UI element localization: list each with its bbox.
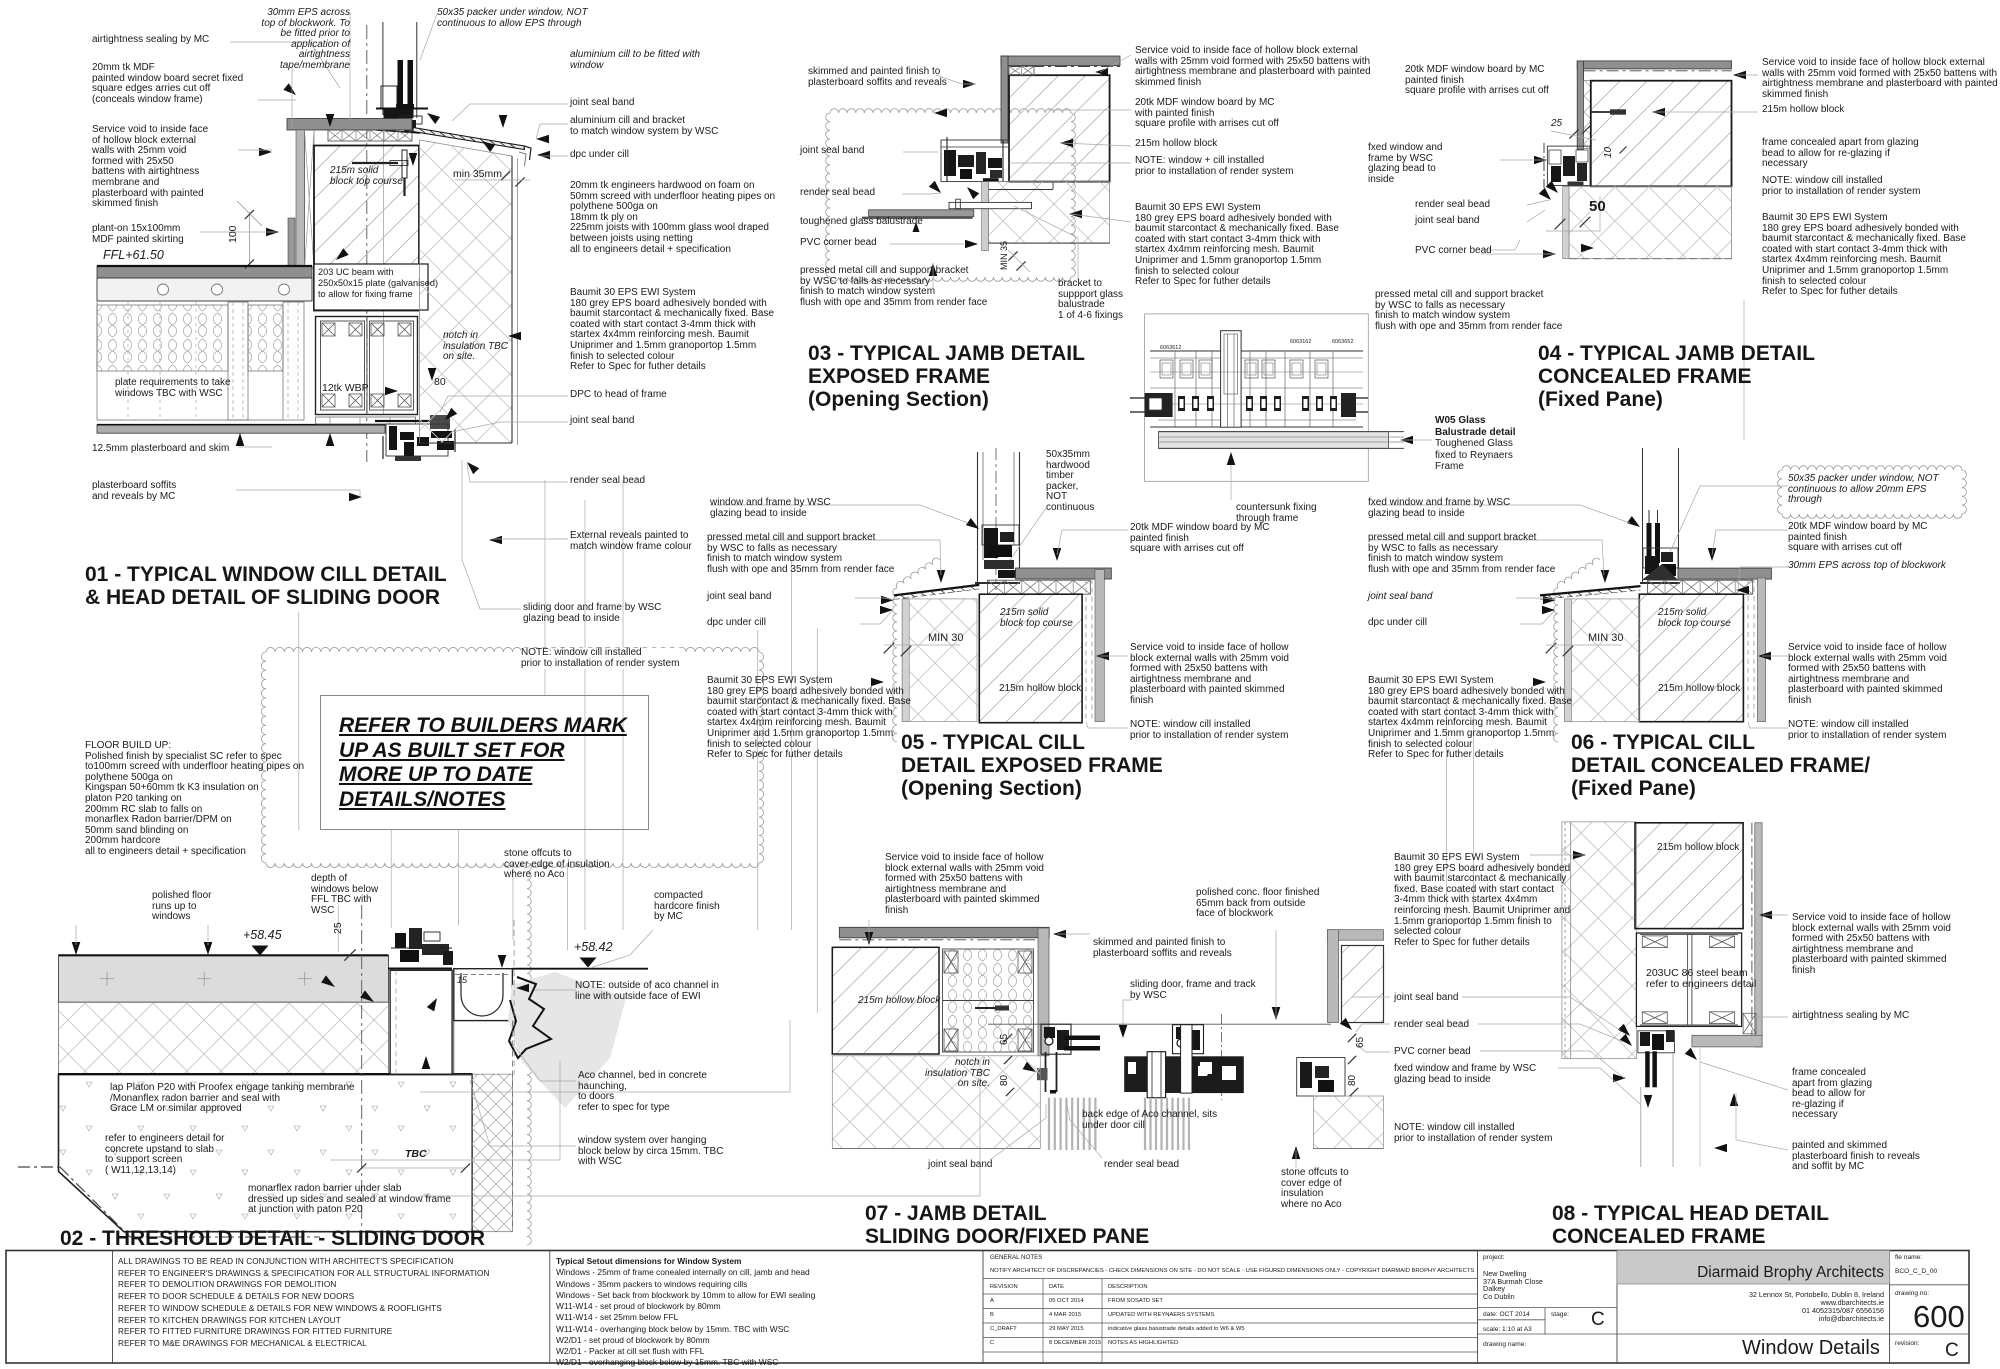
D01 label airtightness sealing: [92, 35, 209, 46]
D02 label +58.42: [574, 941, 613, 954]
W05 part labels: [1160, 346, 1181, 352]
D01 label NOTE window cill: [521, 648, 679, 669]
revision table rows: [990, 1284, 1018, 1290]
D03 leader lines: [936, 75, 976, 84]
D08 EWI crosshatch column: [1562, 822, 1637, 1059]
D01 label plate requirements: [115, 378, 231, 399]
title detail 02: [60, 1227, 485, 1250]
D01 label min 35mm: [453, 169, 502, 180]
D05 label pressed metal cill: [707, 533, 894, 575]
W05 central mullion tower: [1221, 331, 1242, 428]
D03 corner packer strip: [1009, 66, 1034, 75]
D04 label joint seal band: [1415, 216, 1480, 227]
D01 min35 dim leader: [455, 179, 530, 181]
W05 profile boxes row: [1160, 360, 1173, 378]
revision cell: [1895, 1340, 1920, 1347]
D03 label skimmed painted: [808, 67, 947, 88]
typical setout dimensions: [556, 1256, 815, 1369]
D08 hollow block box: [1635, 823, 1743, 929]
D07 FFL track line: [988, 1023, 1331, 1025]
D02 stone offcuts jagged outline: [509, 977, 551, 1058]
D07 label stone offcuts: [1281, 1168, 1349, 1210]
title detail 08: [1552, 1202, 1829, 1248]
D03 label bracket to support: [1058, 279, 1123, 321]
D01 window plane line through block: [383, 130, 385, 414]
D01 joist insulation batts zone: [97, 305, 228, 371]
D05 label MIN 30: [928, 633, 963, 645]
D07 aco grille 1: [1048, 1098, 1050, 1150]
D07 left EWI region: [832, 1056, 1040, 1149]
D02 label polished floor: [152, 891, 211, 923]
D06 plasterboard strip right: [1757, 578, 1765, 722]
W05 gasket blobs row: [1163, 396, 1170, 411]
D03 hollow block box: [1009, 75, 1110, 181]
D07 label notch in insulation: [925, 1058, 990, 1090]
D05 cill slope: [894, 585, 979, 596]
D04 render strip left: [1563, 186, 1569, 258]
D08 EWI left dashed edge: [1564, 822, 1566, 1059]
D01 packer xbox row under board: [328, 130, 412, 141]
D04 label 20tk MDF: [1405, 65, 1549, 97]
D02 label stone offcuts: [504, 849, 610, 881]
D04 leader lines: [1737, 74, 1758, 76]
D02 aco outside face dashline: [513, 920, 515, 1075]
D08 label service void: [1792, 913, 1951, 977]
D01 fixing bolt glyphs in block: [402, 150, 407, 178]
D01 batts zone right: [248, 305, 283, 371]
D01 head packer strip: [316, 417, 416, 424]
D01 label FFL+61.50: [103, 249, 164, 262]
D03 min35 dim: [1008, 251, 1017, 260]
D02 excavation dashdot lines: [18, 1166, 60, 1168]
W05 outer border box: [1145, 314, 1369, 481]
D08 plasterboard bottom horizontal: [1692, 1035, 1762, 1047]
D03 pressed metal bracket arm: [949, 202, 1032, 208]
D07 door frame cluster 1: [1041, 1024, 1071, 1054]
D06 MIN30 dim: [1546, 643, 1557, 654]
D08 label fixed window: [1394, 1064, 1536, 1085]
D02 upstand block: [390, 970, 452, 1074]
D02 aco haunch outline: [454, 1021, 472, 1075]
D06 label dpc under cill: [1368, 618, 1427, 629]
D01 floor screed band: [97, 266, 312, 278]
drawing name big: [1742, 1338, 1880, 1359]
D02 label lap platon: [110, 1083, 355, 1115]
D03 label PVC corner bead: [800, 238, 877, 249]
D06 label service void: [1788, 643, 1947, 707]
D05 leader arrows: [937, 570, 946, 583]
D04 EWI crosshatch below: [1569, 186, 1731, 258]
D01 label 30mm EPS across top: [261, 8, 350, 72]
D03 revision cloud: [826, 109, 1076, 282]
D08 leader lines: [1530, 854, 1584, 856]
D06 service void dashed strip: [1747, 578, 1749, 722]
D06 frame cluster: [1643, 548, 1678, 568]
D07 label skimmed painted: [1093, 938, 1232, 959]
title detail 06: [1571, 731, 1870, 800]
D08 label joint seal band: [1394, 993, 1459, 1004]
D07 label back edge aco: [1082, 1110, 1217, 1131]
D06 label pressed metal cill: [1368, 533, 1555, 575]
W05 label countersunk fixing: [1236, 503, 1317, 524]
D01 window board grey: [287, 119, 412, 131]
D03 leader arrows: [963, 80, 976, 89]
general notes table lines: [983, 1278, 1478, 1280]
D04 packer strip left of block: [1584, 81, 1591, 149]
D05 window frame verticals: [977, 452, 979, 582]
D01 label render seal bead: [570, 476, 645, 487]
W05 end blocks: [1145, 393, 1173, 417]
D08 label painted skimmed: [1792, 1141, 1920, 1173]
D07 label joint seal band: [928, 1160, 993, 1171]
D01 label Baumit EWI: [570, 288, 774, 373]
D01 sliding door head frame cluster: [375, 420, 433, 422]
D01 EWI crosshatch zone: [419, 140, 512, 443]
D08 label NOTE: [1394, 1123, 1552, 1144]
D08 reveal verticals: [1640, 1087, 1642, 1167]
D01 203 UC beam note box: [314, 264, 428, 310]
D04 label PVC corner bead: [1415, 246, 1492, 257]
D06 label Baumit: [1368, 676, 1572, 761]
D04 label frame concealed: [1762, 138, 1919, 170]
D05 MIN30 dim: [884, 643, 895, 654]
D05 leader lines: [710, 505, 968, 523]
D01 label 20mm tk MDF: [92, 63, 243, 105]
D08 label PVC corner bead: [1394, 1047, 1471, 1058]
D02 label TBC: [405, 1149, 427, 1160]
leader columns mid sheet: [757, 630, 759, 930]
D01 label 215m solid block: [330, 166, 403, 187]
D05 render strip left: [902, 599, 909, 722]
D02 label refer engineers upstand: [105, 1134, 225, 1176]
D01 label DPC to head: [570, 390, 667, 401]
D05 label joint seal band: [707, 592, 772, 603]
D02 dim 25 rotated: [333, 922, 344, 934]
D06 MDF window board: [1678, 568, 1772, 579]
D05 label 215m solid block: [1000, 608, 1073, 629]
D02 revision cloud vertical tail: [527, 863, 531, 1245]
D07 label 215m hollow block: [858, 996, 940, 1007]
D01 leader arrows: [283, 83, 296, 95]
D03 EWI crosshatch below block: [989, 182, 1110, 244]
D04 dim 25 slashes: [1569, 129, 1578, 138]
D04 label NOTE window cill: [1762, 176, 1920, 197]
D02 screed band: [59, 955, 389, 1002]
D02 stone offcuts shadow blob: [508, 972, 626, 1108]
D01 label plasterboard soffits: [92, 481, 176, 502]
D01 label joint seal band 2: [570, 416, 635, 427]
D07 leader lines: [1057, 933, 1090, 935]
D05 label window and frame: [710, 498, 831, 519]
D08 steel beam box: [1636, 933, 1741, 1026]
D07 aco grille 2: [1144, 1098, 1146, 1150]
D06 label NOTE: [1788, 720, 1946, 741]
W05 frame band horizontals: [1150, 350, 1363, 352]
refer notes list: [118, 1256, 489, 1350]
D01 label 203 UC beam: [318, 267, 438, 300]
D01 label aluminium cill bracket: [570, 116, 718, 137]
D02 label NOTE aco channel: [575, 981, 719, 1002]
architects address: [1749, 1291, 1884, 1323]
D01 top window frame black bars: [398, 60, 404, 108]
D02 centerline vertical: [361, 905, 363, 1245]
D02 aco channel box: [454, 969, 513, 1021]
D04 dim 10 rotated: [1604, 147, 1615, 158]
D08 label airtightness sealing: [1792, 1011, 1909, 1022]
D03 render strip below: [982, 182, 989, 251]
D02 dim 15: [457, 976, 467, 986]
D03 label NOTE window cill: [1135, 156, 1293, 177]
D01 label service void: [92, 125, 208, 210]
D07 fixing bolt glyph: [975, 1007, 1005, 1009]
D01 plasterboard strip vertical: [296, 130, 305, 268]
D03 dim MIN 35 rotated: [999, 241, 1010, 270]
D03 seal black rect: [983, 178, 999, 182]
D06 leader lines: [1370, 505, 1630, 523]
title block vertical dividers: [112, 1251, 114, 1364]
D06 label 50x35 packer: [1788, 474, 1939, 506]
D05 label 50x35mm hardwood: [1046, 450, 1094, 514]
D01 label notch in insulation: [443, 331, 508, 363]
D02 TBC dim: [362, 1167, 466, 1169]
D03 glass balustrade bars: [869, 210, 974, 217]
D04 dim 10 slash: [1620, 147, 1627, 154]
D04 dim 25: [1551, 119, 1562, 130]
D03 label 20tk MDF: [1135, 98, 1279, 130]
architects cell divider: [1617, 1333, 1890, 1335]
D04 label Baumit: [1762, 213, 1966, 298]
D04 seal dark rect: [1568, 182, 1584, 187]
D07 soffit band top: [839, 927, 1049, 938]
D07 insulation batts box: [943, 949, 1034, 1052]
D03 label render seal bead: [800, 188, 875, 199]
D02 EWI band below aco: [472, 1074, 512, 1232]
D04 dashdot under soffit: [1584, 70, 1732, 72]
D06 small cloud around 50x35 label: [1778, 466, 1967, 519]
D06 label 30mm EPS: [1788, 561, 1946, 572]
D02 dim 25: [337, 905, 339, 952]
D06 render strip left: [1565, 599, 1572, 722]
D07 right hatched block: [1342, 946, 1384, 1023]
W05 label glass balustrade: [1435, 415, 1516, 473]
D03 cill bracket step: [989, 189, 1054, 191]
D06 packer xbox row: [1648, 580, 1753, 594]
D07 right wall L: [1328, 930, 1384, 941]
W05 countersunk arrow: [1227, 452, 1236, 465]
D01 solid block top course box: [314, 146, 419, 311]
D05 service void dashed strip: [1085, 570, 1087, 722]
D03 window frame cluster: [941, 140, 1009, 182]
D01 centerline dash-dot: [366, 25, 368, 462]
D06 label 215m hollow block: [1658, 684, 1740, 695]
D05 plasterboard strip right: [1095, 570, 1104, 722]
D04 label render seal bead: [1415, 200, 1490, 211]
D08 airtightness seal: [1743, 1013, 1756, 1034]
D02 ground line right: [512, 968, 648, 970]
title detail 05: [901, 731, 1163, 800]
D04 label fixed window: [1368, 143, 1443, 185]
project cell: [1483, 1254, 1505, 1261]
D03 label 215m hollow block: [1135, 139, 1217, 150]
D02 leader arrows: [72, 942, 81, 955]
D02 insulation crosshatch band: [59, 1002, 389, 1074]
D06 label fixed window: [1368, 498, 1510, 519]
D06 label 215m solid block: [1658, 608, 1731, 629]
D01 floor deck band with holes: [97, 278, 312, 301]
D03 label joint seal band: [800, 146, 865, 157]
D01 WBP plywood box: [316, 317, 418, 415]
D02 label depth of windows: [311, 874, 378, 916]
D01 label aluminium cill fitted: [570, 50, 700, 71]
D05 label NOTE: [1130, 720, 1288, 741]
D02 label +58.45: [243, 929, 282, 942]
D01 top window frame section verticals: [382, 22, 384, 115]
D01 revision cloud around notes area: [261, 647, 763, 867]
D08 service void dashdot: [1751, 823, 1753, 1047]
D06 blockwork box: [1639, 594, 1743, 722]
D05 MDF window board: [1016, 568, 1112, 579]
D07 bottom boundary: [832, 1148, 1040, 1150]
D06 label joint seal band: [1368, 592, 1433, 603]
D05 revision cloud left edge: [893, 588, 897, 742]
D03 label service void: [1135, 46, 1371, 88]
D01 stud strip: [228, 302, 248, 420]
D07 door frame cluster 3: [1297, 1058, 1345, 1097]
D05 label Baumit: [707, 676, 911, 761]
D01 dim 100 line: [248, 212, 250, 267]
D08 leader arrows: [1573, 851, 1586, 860]
D03 dashdot under soffit: [1009, 66, 1121, 68]
D01 second stud strip: [283, 302, 304, 420]
D07 label service void: [885, 853, 1044, 917]
title detail 07: [865, 1202, 1149, 1248]
D04 leader arrows: [1733, 71, 1746, 80]
D05 label 215m hollow block: [999, 684, 1081, 695]
D03 label toughened glass: [800, 217, 923, 228]
D06 window frame mullion bars: [1647, 523, 1652, 563]
D01 min35 dim slashes: [501, 171, 510, 180]
D07 dims left: [1004, 1034, 1012, 1042]
W05 glass band: [1159, 432, 1389, 449]
D07 right EWI below: [1314, 1096, 1384, 1149]
title detail 01: [85, 563, 447, 609]
D03 soffit L grey: [1001, 56, 1120, 66]
D01 cill end drip and dpc: [524, 146, 531, 160]
D02 label compacted hardcore: [654, 891, 720, 923]
D02 level marker right: [580, 958, 597, 968]
D01 batten strip vertical: [305, 130, 315, 268]
D02 label monarflex radon: [248, 1184, 451, 1216]
title detail 03: [808, 342, 1085, 411]
D02 level marker left: [252, 946, 269, 956]
W05 profile verticals: [1174, 351, 1176, 427]
D05 EWI crosshatch: [902, 599, 977, 722]
refer to builders markup box: [320, 695, 649, 830]
D04 label pressed metal cill: [1375, 290, 1562, 332]
title detail 04: [1538, 342, 1815, 411]
D07 label polished conc floor: [1196, 888, 1319, 920]
D01 skirting plant-on: [288, 218, 295, 268]
D07 dims right: [1348, 1034, 1356, 1042]
D07 notch grey rect: [1037, 1068, 1048, 1080]
D07 hollow block box: [832, 947, 939, 1054]
D07 label render seal bead: [1104, 1160, 1179, 1171]
D01 leader lines: [230, 42, 340, 88]
D01 label 50x35 packer: [437, 8, 588, 29]
D05 label 20tk MDF: [1130, 523, 1270, 555]
D07 dims 65 80 left: [1000, 1034, 1011, 1045]
D07 leader arrows: [1053, 930, 1066, 939]
D02 concrete slab polygon: [59, 1074, 473, 1232]
D04 wall tie glyph: [1592, 111, 1620, 113]
D05 packer xbox row: [988, 580, 1091, 594]
D04 dim 50 slashes: [1555, 219, 1566, 230]
D01 top cill assembly cluster: [381, 86, 397, 108]
D01 label floor buildup engineers: [570, 181, 775, 255]
D08 label 203UC beam: [1646, 968, 1756, 990]
D04 soffit L grey: [1577, 61, 1731, 69]
general notes cell: [990, 1255, 1042, 1262]
D01 label 12tk WBP: [322, 383, 369, 394]
D05 label service void: [1130, 643, 1289, 707]
D01 label plant-on skirting: [92, 224, 184, 245]
D04 window frame cluster: [1547, 146, 1590, 185]
D01 plasterboard ceiling band: [97, 425, 385, 434]
D06 label MIN 30: [1588, 633, 1623, 645]
D07 label sliding door frame track: [1130, 980, 1256, 1001]
D04 label service void: [1762, 58, 1998, 100]
right column cell lines: [1890, 1284, 1969, 1286]
D01 long leader verticals down the sheet: [298, 612, 300, 830]
D08 label Baumit: [1394, 853, 1570, 948]
D06 leader arrows: [1601, 570, 1610, 583]
W05 glass leader arrow: [1400, 436, 1413, 445]
D02 label window system overhang: [578, 1136, 723, 1168]
D02 door cill cluster: [388, 968, 452, 970]
D05 blockwork box: [979, 594, 1082, 723]
D08 head frame cluster: [1638, 1031, 1675, 1053]
revision table column lines: [1042, 1279, 1044, 1364]
D08 plasterboard strip right: [1755, 823, 1762, 1047]
D06 revision cloud left edge: [1554, 588, 1558, 742]
D02 label floor build up: [85, 741, 304, 858]
D02 leader lines: [75, 925, 77, 945]
D01 aluminium cill sloping: [413, 128, 525, 150]
D08 label frame concealed: [1792, 1068, 1872, 1121]
title block outer border: [6, 1251, 1969, 1364]
architects header grey band: [1617, 1251, 1890, 1285]
D04 dim 50: [1589, 199, 1606, 215]
D06 EWI crosshatch: [1565, 599, 1640, 722]
D01 label joint seal band: [570, 98, 635, 109]
D08 label render seal bead: [1394, 1020, 1469, 1031]
D05 window frame cluster: [982, 525, 1019, 545]
D01 EWI outer render lines: [511, 156, 513, 443]
architects name: [1697, 1264, 1884, 1281]
D02 label aco channel bed: [578, 1071, 707, 1113]
D04 label 215m hollow block: [1762, 105, 1844, 116]
D01 label external reveals: [570, 531, 692, 552]
D06 window frame verticals: [1642, 448, 1644, 582]
D07 door frame cluster 2: [1220, 1014, 1222, 1100]
D02 screed cross marks: [100, 978, 114, 980]
D07 dims 65 80 right: [1356, 1037, 1367, 1048]
D08 label 215m hollow block: [1657, 843, 1739, 854]
file name cell: [1895, 1254, 1922, 1261]
D06 cill slope: [1540, 586, 1641, 595]
D01 dim 80: [434, 377, 446, 388]
drawing no cell: [1895, 1290, 1929, 1297]
